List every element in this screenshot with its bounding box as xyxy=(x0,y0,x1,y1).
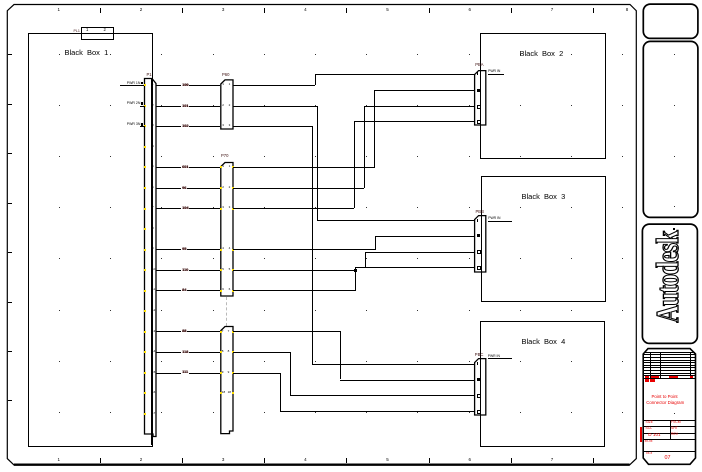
revision table lines xyxy=(644,352,695,353)
ruler zone number bottom xyxy=(469,458,472,463)
P1 pin 1 xyxy=(152,83,154,86)
title block size fields (red) xyxy=(645,379,649,382)
right margin box 1 xyxy=(641,2,701,42)
P71 pin 8 right xyxy=(228,350,230,353)
ruler zone number bottom xyxy=(140,458,143,463)
ruler zone number top xyxy=(58,8,61,13)
title block field divider xyxy=(670,420,671,439)
ruler tick left xyxy=(8,104,12,105)
ruler zone number top xyxy=(386,8,389,13)
P71 pin 18 left xyxy=(222,391,225,394)
wire through PL1 xyxy=(82,33,112,34)
P1 pin 7 terminal marker xyxy=(144,208,146,210)
P71 pin 18 right xyxy=(228,391,231,394)
wire net 104: P70.3 to PBA.4 xyxy=(233,208,354,209)
P71 pin 7 left xyxy=(222,330,224,333)
PBC pin 3 xyxy=(477,394,481,398)
label PWR IN (Black Box 3) xyxy=(488,217,500,220)
Black Box 4 outline xyxy=(480,321,605,447)
junction at P70.5 branch xyxy=(354,269,357,272)
ruler zone number bottom xyxy=(58,458,61,463)
PBA pin 3 xyxy=(477,105,481,109)
wire net 100: P60.1 to PBA.1 xyxy=(233,85,315,86)
P1 pin 12 terminal marker xyxy=(144,310,146,312)
label Black Box 4 xyxy=(522,338,566,346)
right margin box 2 xyxy=(641,39,701,221)
P60 pin 1 right xyxy=(229,83,231,86)
P71 pin 9 right xyxy=(228,371,230,374)
wire P1 pin 15 to middle connector, net 111 xyxy=(156,373,220,374)
P60 pin 2 right xyxy=(229,104,231,107)
ruler zone number bottom xyxy=(304,458,307,463)
Autodesk registered mark xyxy=(673,228,675,230)
P1 pin 1 terminal marker xyxy=(144,84,146,86)
wire P1 pin 7 to middle connector, net 104 xyxy=(156,208,220,209)
connector P71 body xyxy=(219,325,235,437)
ruler tick bottom xyxy=(100,458,101,463)
P1 pin 4 terminal marker xyxy=(144,146,146,148)
net label 601 xyxy=(181,165,189,169)
P1 pin 13 terminal marker xyxy=(144,331,146,333)
wire P1 pin 14 to middle connector, net 118 xyxy=(156,352,220,353)
P70 pin 5 terminal markers xyxy=(220,269,222,271)
net label PWR 1N xyxy=(127,82,141,86)
P70 pin 4 terminal markers xyxy=(220,249,222,251)
ruler tick left xyxy=(8,203,12,204)
net label 111 xyxy=(181,370,189,374)
Autodesk logo box xyxy=(640,222,700,348)
PWR IN leader line xyxy=(488,74,504,75)
label PBB xyxy=(476,210,484,214)
P1 pin 16 xyxy=(152,391,155,394)
Black Box 2 outline xyxy=(480,33,606,159)
Black Box 3 outline xyxy=(481,176,606,302)
P71 pin 7 terminal markers xyxy=(220,331,222,333)
wire net 96: P70.2 to PBA.3 xyxy=(233,188,364,189)
PBB pin 2 xyxy=(477,234,480,237)
connector PBB body xyxy=(473,214,488,274)
PL1 pin 2 xyxy=(104,28,106,32)
connector P60 body xyxy=(219,78,235,131)
ruler tick bottom xyxy=(182,458,183,463)
Black Box 1 right edge through P1 xyxy=(151,78,152,445)
title block outline xyxy=(640,346,702,470)
drawing title line 2 xyxy=(646,401,684,405)
revision table column lines xyxy=(650,352,651,378)
P70 pin 6 right xyxy=(229,288,231,291)
ruler zone number bottom xyxy=(386,458,389,463)
ruler tick top xyxy=(264,8,265,13)
net label 96 xyxy=(181,186,187,190)
wire P1 pin 5 to middle connector, net 601 xyxy=(156,167,220,168)
ruler tick bottom xyxy=(593,458,594,463)
field text drawing number (red) xyxy=(648,433,660,438)
red revision bar xyxy=(640,427,642,442)
PWR IN leader line xyxy=(488,221,512,222)
P70 pin 2 terminal markers xyxy=(220,187,222,189)
P70 pin 3 left xyxy=(222,206,224,209)
net label PWR 2N xyxy=(127,102,141,106)
label PBA xyxy=(475,63,483,67)
net label 95 xyxy=(181,247,187,251)
P1 pin 14 terminal marker xyxy=(144,351,146,353)
P70 pin 4 left xyxy=(222,247,224,250)
P1 pin 13 xyxy=(152,330,155,333)
label PBC xyxy=(475,353,484,357)
P1 pin 8 terminal marker xyxy=(144,228,146,230)
P70 pin 4 right xyxy=(229,247,231,250)
label P1 xyxy=(147,73,152,77)
P1 pin 4 xyxy=(152,145,154,148)
P1 pin 9 xyxy=(152,247,154,250)
ruler zone number top xyxy=(222,8,225,13)
P70 pin 1 left xyxy=(222,165,224,168)
P60 pin 3 right xyxy=(229,124,231,127)
revision table red entries xyxy=(645,376,649,378)
ruler tick bottom xyxy=(264,458,265,463)
ruler tick left xyxy=(8,351,12,352)
connector PBC body xyxy=(473,357,488,417)
net label 88 xyxy=(181,329,187,333)
ruler tick top xyxy=(182,8,183,13)
wire net 110: P70.5 to PBB.3 and PBB.4 xyxy=(233,270,355,271)
P1 pin 10 terminal marker xyxy=(144,269,146,271)
P1 pin 12 xyxy=(152,309,155,312)
wire P1 pin 9 to middle connector, net 95 xyxy=(156,249,220,250)
P1 pin 15 terminal marker xyxy=(144,372,146,374)
title block field lines xyxy=(644,420,695,421)
sheet number 07 (red) xyxy=(665,456,671,461)
P1 pin 7 xyxy=(152,206,154,209)
P60 pin 2 left xyxy=(222,104,224,107)
ruler zone number bottom xyxy=(551,458,554,463)
P70 pin 5 right xyxy=(229,268,231,271)
wire P1 pin 3 to middle connector, net 102 xyxy=(156,126,220,127)
PBB pin 4 xyxy=(477,266,481,270)
ruler zone number top xyxy=(469,8,472,13)
P71 pin 8 left xyxy=(222,350,224,353)
dashed link line between P70 and P71 xyxy=(226,297,227,326)
label Black Box 2 xyxy=(520,50,564,58)
PBC pin 2 xyxy=(477,378,480,381)
connector P70 body xyxy=(219,161,235,298)
PBC pin 1 xyxy=(477,362,478,365)
connector PL1 (2-pin inline on Black Box 1 top edge) xyxy=(81,27,114,39)
wire net 601: P70.1 to PBA.2 xyxy=(233,167,375,168)
P60 pin 3 left xyxy=(222,124,224,127)
PBC pin 4 xyxy=(477,410,481,414)
ruler tick bottom xyxy=(511,458,512,463)
P1 pin 8 xyxy=(152,227,154,230)
P1 pin 3 xyxy=(152,124,154,127)
PBB pin 3 xyxy=(477,250,481,254)
wire P1 pin 1 to middle connector, net 100 xyxy=(156,85,220,86)
wire P1 pin 10 to middle connector, net 110 xyxy=(156,270,220,271)
wire P1 pin 2 to middle connector, net 101 xyxy=(156,106,220,107)
wire net 111: P71.9 to PBC.4 xyxy=(233,373,280,374)
ruler tick top xyxy=(346,8,347,13)
PL1 pin 1 xyxy=(86,28,88,32)
P71 pin 7 right xyxy=(228,330,230,333)
wire stub into P1 pin 1 xyxy=(120,85,144,86)
P1 pin 10 xyxy=(152,268,155,271)
P1 pin 2 terminal marker xyxy=(144,105,146,107)
field text rev (red) xyxy=(671,433,678,436)
wire P1 pin 13 to middle connector, net 88 xyxy=(156,331,220,332)
P71 pin 9 terminal markers xyxy=(220,372,222,374)
P1 pin 5 terminal marker xyxy=(144,166,146,168)
P1 pin 6 xyxy=(152,186,154,189)
wire P1 pin 6 to middle connector, net 96 xyxy=(156,188,220,189)
label PWR IN (Black Box 2) xyxy=(488,70,500,73)
wire P1 pin 11 to middle connector, net 84 xyxy=(156,290,220,291)
P1 pin 2 xyxy=(152,104,154,107)
ruler zone number top xyxy=(140,8,143,13)
P1 pin 5 xyxy=(152,165,154,168)
label Black Box 3 xyxy=(522,193,566,201)
P70 pin 1 terminal markers xyxy=(220,166,222,168)
label PWR IN (Black Box 4) xyxy=(488,355,500,358)
P1 pin 14 xyxy=(152,350,155,353)
net label 84 xyxy=(181,288,187,292)
P1 pin 17 terminal marker xyxy=(144,413,146,415)
P70 pin 2 right xyxy=(229,186,231,189)
field text date (red) xyxy=(645,440,653,443)
connector P1 body xyxy=(143,77,163,439)
connector PBA body xyxy=(473,69,488,127)
PBA pin 1 xyxy=(477,72,478,75)
ruler tick left xyxy=(8,400,12,401)
wire stub into P1 pin 3 xyxy=(140,126,145,127)
ruler zone number top xyxy=(304,8,307,13)
drawing title line 1 xyxy=(652,395,678,399)
ruler zone number bottom xyxy=(222,458,225,463)
P1 pin 3 terminal marker xyxy=(144,125,146,127)
P1 pin 11 xyxy=(152,288,155,291)
wire net 118: P71.8 to PBC.3 xyxy=(233,352,290,353)
P71 pin 9 left xyxy=(222,371,224,374)
P1 pin 15 xyxy=(152,371,155,374)
P1 pin 11 terminal marker xyxy=(144,290,146,292)
P70 pin 2 left xyxy=(222,186,224,189)
P70 pin 6 terminal markers xyxy=(220,290,222,292)
Black Box 1 outline xyxy=(28,33,153,446)
wire net 95: P70.4 to PBB.2 xyxy=(233,249,375,250)
ruler tick top xyxy=(511,8,512,13)
ruler tick left xyxy=(8,54,12,55)
P70 pin 6 left xyxy=(222,288,224,291)
P1 pin 6 terminal marker xyxy=(144,187,146,189)
label Black Box 1 xyxy=(65,49,109,57)
label PL1 xyxy=(74,30,80,34)
wire stub into P1 pin 2 xyxy=(140,106,145,107)
net label 102 xyxy=(181,124,189,128)
P70 pin 3 terminal markers xyxy=(220,208,222,210)
PBA pin 2 xyxy=(477,89,480,92)
P71 pin 18 terminal markers xyxy=(220,392,222,394)
ruler tick bottom xyxy=(346,458,347,463)
field text file (red) xyxy=(646,452,652,455)
P70 pin 1 right xyxy=(229,165,231,168)
net label 118 xyxy=(181,350,189,354)
terminal mark for PWR 1N xyxy=(141,82,144,85)
label P60 xyxy=(222,73,229,77)
wire net 102: P60.3 to PBC.1 xyxy=(233,126,312,127)
wire net 84: P70.6 tied to net 110 xyxy=(233,290,355,291)
ruler zone number top xyxy=(626,8,629,13)
net label PWR 3N xyxy=(127,123,141,127)
terminal mark for PWR 2N xyxy=(141,102,144,105)
net label 104 xyxy=(181,206,189,210)
field text size (red) xyxy=(646,421,654,424)
Autodesk logo wordmark xyxy=(641,224,697,344)
ruler tick left xyxy=(8,302,12,303)
P70 pin 3 right xyxy=(229,206,231,209)
P1 pin 9 terminal marker xyxy=(144,249,146,251)
field text scale (red) xyxy=(646,427,653,430)
wire net 101: P60.2 to PBB.1 xyxy=(233,106,317,107)
net label 110 xyxy=(181,268,189,272)
ruler tick left xyxy=(8,252,12,253)
P1 pin 17 xyxy=(152,412,155,415)
ruler tick top xyxy=(429,8,430,13)
terminal mark for PWR 3N xyxy=(141,123,144,126)
ruler tick top xyxy=(100,8,101,13)
P71 pin 8 terminal markers xyxy=(220,351,222,353)
drawing grid dots xyxy=(59,54,60,55)
field text dwg no (red) xyxy=(671,421,681,424)
net label 101 xyxy=(181,104,189,108)
PWR IN leader line xyxy=(488,358,512,359)
P70 pin 5 left xyxy=(222,268,224,271)
ruler tick top xyxy=(593,8,594,13)
PBB pin 1 xyxy=(477,219,478,222)
P1 pin 16 terminal marker xyxy=(144,392,146,394)
field text sheet (red) xyxy=(671,427,678,430)
label P70 xyxy=(221,154,228,158)
ruler zone number top xyxy=(551,8,554,13)
ruler tick bottom xyxy=(429,458,430,463)
net label 100 xyxy=(181,83,189,87)
PBA pin 4 xyxy=(477,120,481,124)
ruler tick left xyxy=(8,153,12,154)
P60 pin 1 left xyxy=(222,83,224,86)
wire net 88: P71.7 to PBC.2 xyxy=(233,331,340,332)
